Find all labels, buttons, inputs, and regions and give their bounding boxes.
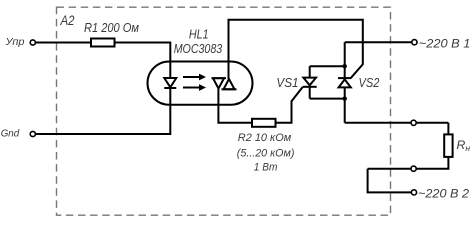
svg-text:~220 В 1: ~220 В 1 <box>419 38 471 50</box>
load resistor Rн <box>444 134 452 157</box>
terminal Упр <box>4 37 35 48</box>
svg-text:VS2: VS2 <box>359 75 381 90</box>
optocoupler HL1 body <box>148 62 253 105</box>
junction bottom rail / VS2 <box>343 96 347 100</box>
svg-text:A2: A2 <box>60 13 75 28</box>
svg-text:~220 В 2: ~220 В 2 <box>418 188 470 200</box>
terminal Gnd <box>1 128 36 139</box>
svg-text:R1 200 Ом: R1 200 Ом <box>84 20 139 35</box>
svg-text:Упр: Упр <box>4 37 24 48</box>
bottom rail wire <box>310 98 345 100</box>
wire loop to ~220 В 2 <box>368 169 412 193</box>
wire LED cathode to Gnd <box>35 88 170 134</box>
svg-text:VS1: VS1 <box>276 75 298 90</box>
svg-text:R2 10 кОм: R2 10 кОм <box>238 132 292 144</box>
connection point bottom <box>411 166 416 171</box>
svg-text:MOC3083: MOC3083 <box>174 41 223 56</box>
svg-text:(5...20 кОм): (5...20 кОм) <box>237 148 295 160</box>
LED of HL1 <box>164 78 176 88</box>
top rail wire <box>310 65 345 67</box>
resistor R1 <box>91 39 115 47</box>
junction top rail / VS2 <box>343 64 347 68</box>
terminal ~220 В 2 <box>411 190 416 195</box>
wire phototriac top pin to VS2 gate <box>229 20 363 79</box>
phototriac of HL1 <box>212 78 237 89</box>
svg-text:HL1: HL1 <box>189 27 209 42</box>
terminal ~220 В 1 <box>412 40 417 45</box>
wire Rн bottom back inside <box>368 157 449 169</box>
wire phototriac bottom pin to R2 <box>218 89 252 123</box>
svg-text:Gnd: Gnd <box>1 128 21 139</box>
wire Упр to R1 <box>35 42 91 44</box>
thyristor VS2 <box>338 42 351 123</box>
module boundary A2 (dashed box) <box>57 7 391 215</box>
wire R1 to HL1 LED anode <box>115 43 171 79</box>
light arrows <box>183 74 206 91</box>
svg-text:1 Вт: 1 Вт <box>254 162 278 174</box>
thyristor VS1 <box>303 66 317 98</box>
bottom output wire to load <box>345 122 449 124</box>
wire R2 to VS1 gate <box>276 87 303 123</box>
wire VS2 top to ~220 В 1 terminal <box>345 41 412 43</box>
resistor R2 <box>252 119 276 127</box>
connection point top <box>411 120 416 125</box>
